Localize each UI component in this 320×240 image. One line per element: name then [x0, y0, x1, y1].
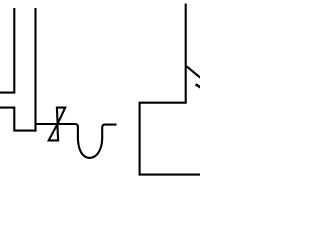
wire — [0, 8, 14, 93]
diac D1 — [57, 108, 65, 124]
wire — [0, 108, 37, 131]
wire — [35, 124, 117, 158]
wire — [140, 4, 201, 175]
transistor Q1 — [187, 66, 201, 78]
wire — [34, 8, 36, 132]
